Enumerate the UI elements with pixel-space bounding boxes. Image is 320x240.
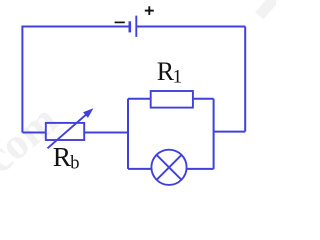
- svg-text:R: R: [53, 141, 72, 172]
- svg-text:1: 1: [173, 67, 183, 88]
- svg-text:b: b: [70, 154, 79, 174]
